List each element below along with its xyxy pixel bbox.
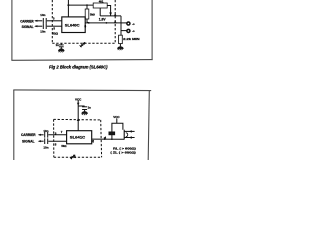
svg-text:401: 401 xyxy=(99,0,104,4)
dashed package boundary bottom xyxy=(52,42,115,44)
op-amp block U2 SL641C xyxy=(67,131,92,144)
wire RV1 right end down xyxy=(107,6,110,16)
capacitor C6 10n xyxy=(44,138,46,144)
svg-text:50Ω: 50Ω xyxy=(61,144,66,148)
svg-text:10n: 10n xyxy=(40,30,45,34)
page border left (fig 2 box) xyxy=(11,0,13,60)
ground below R2 xyxy=(117,46,124,49)
ground below C3 xyxy=(58,48,65,51)
node rail junction xyxy=(67,4,69,6)
op-amp block U1 SL640C xyxy=(62,17,85,33)
fig 2 box bottom rule xyxy=(11,59,152,62)
resistor RV1 horizontal xyxy=(93,3,107,8)
carrier input arrow xyxy=(39,134,44,136)
wire supply rail xyxy=(68,4,93,6)
output 2 arrow xyxy=(124,137,134,139)
wire carrier to IC xyxy=(48,134,66,136)
svg-text:10n: 10n xyxy=(43,145,48,149)
wire carrier to IC xyxy=(47,20,62,22)
resistor R2 2.2k MIN xyxy=(119,35,123,43)
wire wiper down xyxy=(99,8,101,16)
capacitor C4 decoupling xyxy=(78,105,84,107)
capacitor C1 10n xyxy=(42,18,44,24)
wire VCC stub xyxy=(116,118,118,123)
wire signal to IC xyxy=(47,25,62,27)
page border right (fig 2 box) xyxy=(151,0,153,60)
svg-text:10n: 10n xyxy=(43,129,48,133)
figure 3 box right edge xyxy=(148,91,149,160)
svg-text:SIGNAL: SIGNAL xyxy=(22,140,35,144)
wire signal to IC xyxy=(48,140,66,142)
svg-text:10n: 10n xyxy=(40,13,45,17)
dashed package boundary left xyxy=(51,0,53,43)
svg-text:50Ω: 50Ω xyxy=(52,32,58,36)
svg-text:6: 6 xyxy=(92,140,94,144)
wire stub to O/P 1 xyxy=(121,22,127,24)
svg-text:SL641C: SL641C xyxy=(70,136,86,140)
wire stub to O/P 2 xyxy=(121,30,127,32)
terminal O/P 2 xyxy=(127,29,130,32)
svg-text:1.8V: 1.8V xyxy=(99,17,107,21)
dashed package boundary right xyxy=(114,0,116,43)
dashed package boundary left xyxy=(53,119,55,157)
terminal O/P 1 xyxy=(127,22,130,25)
signal input arrow xyxy=(35,25,42,27)
wire output pin 6 xyxy=(92,138,124,140)
wire output upper xyxy=(100,15,121,17)
svg-text:3k9: 3k9 xyxy=(90,12,95,16)
signal input arrow xyxy=(39,140,44,142)
wire output lower from pin 6 xyxy=(85,22,121,24)
svg-text:-o: -o xyxy=(132,29,135,33)
figure 3 box left edge xyxy=(13,90,15,160)
svg-text:SL640C: SL640C xyxy=(65,23,80,27)
wire Vcc into IC top xyxy=(67,0,69,17)
svg-text:( ZL ( > 600Ω): ( ZL ( > 600Ω) xyxy=(110,151,135,155)
pin arrow on VCC wire at package edge xyxy=(77,118,80,121)
figure 3 box top edge xyxy=(13,89,151,92)
pin arrow lower xyxy=(114,20,117,23)
resistor R3 xyxy=(109,132,115,135)
capacitor C5 10n xyxy=(44,132,46,138)
ground screen connection (slanted) xyxy=(84,42,86,44)
svg-text:CARRIER: CARRIER xyxy=(20,19,34,23)
ground below C4 xyxy=(81,111,88,114)
dashed package boundary bottom xyxy=(54,156,102,158)
svg-text:CARRIER: CARRIER xyxy=(21,133,36,137)
wire rail xyxy=(112,123,123,132)
svg-text:1n: 1n xyxy=(88,105,91,109)
svg-text:-o: -o xyxy=(132,22,135,26)
resistor R1 vertical xyxy=(86,5,88,9)
capacitor C3 to ground under IC xyxy=(60,43,62,45)
output 1 arrow xyxy=(124,130,134,132)
pin arrow on output wire xyxy=(104,136,107,139)
carrier input arrow xyxy=(35,20,42,22)
wire output node vertical xyxy=(120,16,122,35)
pin arrow upper xyxy=(114,13,117,16)
capacitor C2 10n xyxy=(42,24,44,29)
transistor Q1 xyxy=(123,130,125,140)
node R1 top xyxy=(86,4,88,6)
wire VCC down to IC xyxy=(77,101,79,131)
dashed package boundary top xyxy=(54,118,101,121)
svg-text:1n: 1n xyxy=(56,43,59,47)
svg-text:Fig 2 Block diagram (SL640C): Fig 2 Block diagram (SL640C) xyxy=(49,64,108,69)
ground screen connection (slanted, bottom) xyxy=(74,156,76,158)
svg-text:2.2k MIN: 2.2k MIN xyxy=(123,37,139,41)
arrow on VCC wire xyxy=(77,103,80,106)
svg-text:SIGNAL: SIGNAL xyxy=(22,25,34,29)
dashed package boundary right xyxy=(100,120,103,157)
svg-text:6: 6 xyxy=(84,25,86,29)
